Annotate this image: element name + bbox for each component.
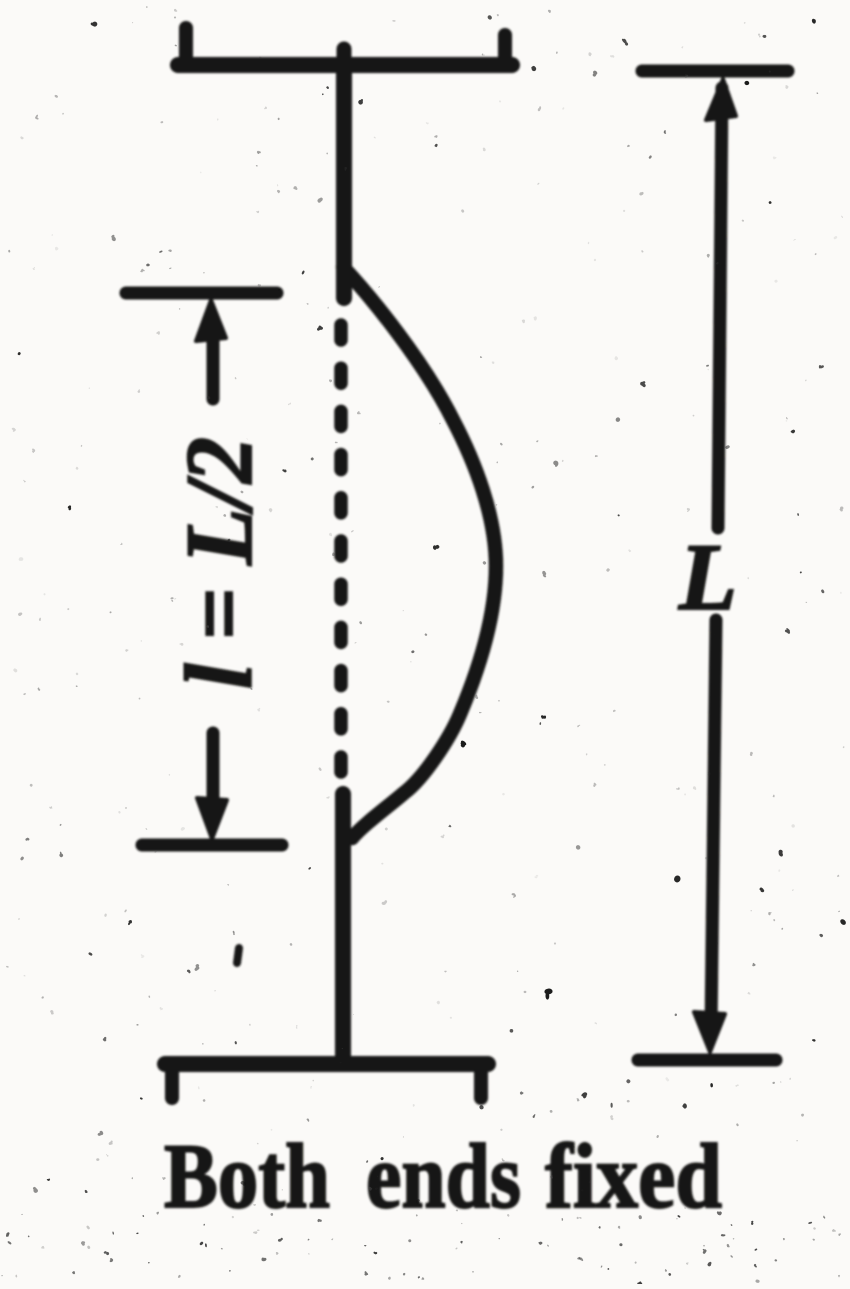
top support right tick <box>498 35 512 62</box>
column stub above top support <box>337 49 352 65</box>
right dimension arrow shaft lower <box>711 620 716 1030</box>
right dimension arrow shaft upper <box>718 88 722 528</box>
right dimension down arrow head <box>694 1012 725 1052</box>
top fixed support bar <box>178 57 512 73</box>
left dimension upper arrow head <box>196 300 226 341</box>
left dimension bottom bar <box>142 839 282 852</box>
column lower segment <box>335 794 351 1062</box>
left dimension lower arrow shaft <box>207 733 220 814</box>
column centerline dashed <box>334 325 348 772</box>
top support left tick <box>179 28 193 62</box>
svg-text:Both: Both <box>164 1125 330 1227</box>
bottom support left tick <box>165 1068 179 1098</box>
stray ink mark <box>237 948 239 963</box>
left dimension top bar <box>126 287 277 300</box>
right dimension bottom bar <box>638 1054 776 1067</box>
svg-text:fixed: fixed <box>545 1125 722 1227</box>
left dimension lower arrow head <box>197 798 227 839</box>
right dimension top bar <box>642 65 788 78</box>
bottom fixed support bar <box>165 1056 488 1072</box>
left dimension upper arrow shaft <box>207 322 220 399</box>
column upper segment <box>336 65 352 298</box>
right dimension up arrow head <box>706 79 736 120</box>
bottom support right tick <box>474 1068 488 1098</box>
svg-text:l = L/2: l = L/2 <box>166 437 272 689</box>
svg-text:ends: ends <box>366 1125 521 1227</box>
svg-text:L: L <box>678 524 737 630</box>
buckled column curve <box>343 267 496 838</box>
